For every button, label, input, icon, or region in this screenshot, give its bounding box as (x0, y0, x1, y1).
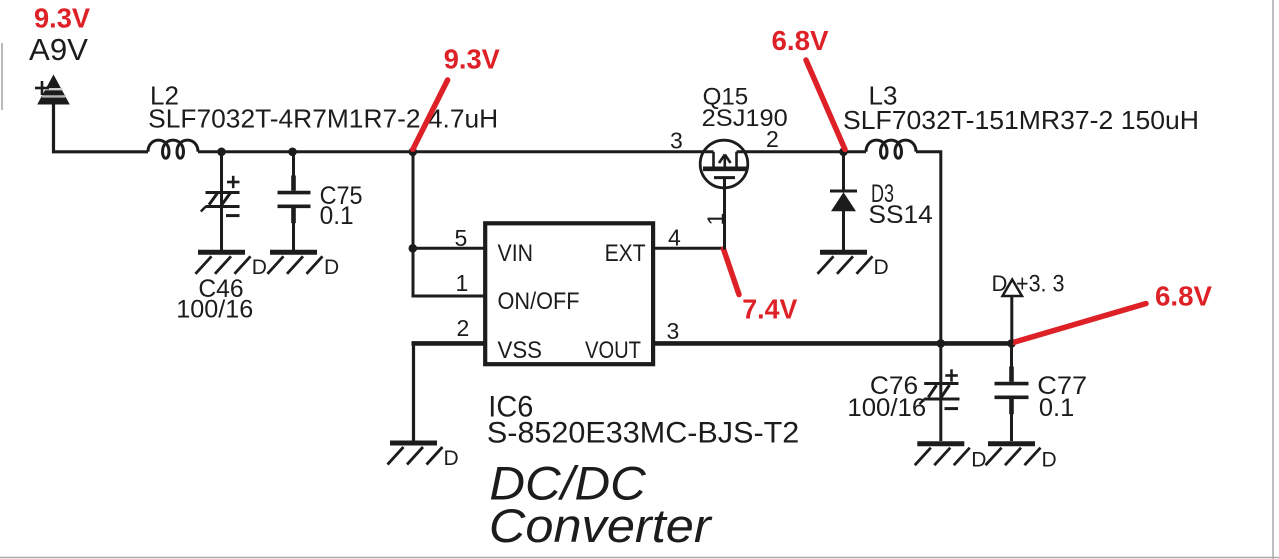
ground (D3) (818, 252, 873, 273)
node junction at C46 (217, 148, 226, 157)
svg-text:SLF7032T-151MR37-2 150uH: SLF7032T-151MR37-2 150uH (843, 105, 1199, 135)
wire VSS pin2 (412, 341, 488, 346)
screen edge artifact right (1272, 0, 1274, 559)
svg-text:SLF7032T-4R7M1R7-2 4.7uH: SLF7032T-4R7M1R7-2 4.7uH (148, 104, 498, 134)
wire rail to D3/L3 (737, 150, 867, 153)
svg-text:7.4V: 7.4V (742, 294, 797, 325)
capacitor C46 (polarized) (201, 152, 240, 250)
svg-text:VOUT: VOUT (585, 337, 641, 364)
inductor L3 (866, 140, 916, 158)
svg-text:EXT: EXT (605, 240, 646, 267)
svg-text:3: 3 (670, 128, 683, 154)
svg-text:6.8V: 6.8V (1155, 281, 1212, 312)
wire VSS down (412, 343, 415, 441)
power symbol +3.3 (1003, 280, 1023, 344)
svg-text:A9V: A9V (29, 32, 88, 67)
node junction C76 (937, 339, 946, 348)
red pointer line 6.8V right (1013, 304, 1146, 343)
svg-text:100/16: 100/16 (176, 296, 253, 324)
inductor L2 (148, 140, 198, 158)
svg-text:SS14: SS14 (868, 201, 932, 229)
svg-text:0.1: 0.1 (1039, 394, 1074, 422)
svg-text:9.3V: 9.3V (444, 44, 500, 75)
capacitor C76 (polarized) (920, 343, 960, 441)
power symbol A9V (35, 75, 70, 105)
svg-text:6.8V: 6.8V (772, 25, 829, 56)
svg-text:0.1: 0.1 (320, 202, 354, 230)
ground (C75) (268, 252, 323, 273)
node junction pin5 (409, 244, 418, 253)
node junction 9.3V (409, 148, 418, 157)
svg-text:4: 4 (668, 225, 681, 251)
svg-text:S-8520E33MC-BJS-T2: S-8520E33MC-BJS-T2 (487, 417, 799, 450)
wire main rail (198, 150, 714, 153)
svg-text:D: D (444, 447, 459, 470)
svg-text:+3. 3: +3. 3 (1016, 270, 1065, 297)
node junction D3 (839, 148, 848, 157)
svg-text:2: 2 (766, 126, 779, 152)
diode D3 (830, 152, 857, 250)
wire VOUT pin3 rail (653, 341, 1012, 346)
svg-text:2: 2 (457, 315, 470, 341)
wire A9V down (54, 105, 149, 152)
svg-text:D: D (992, 271, 1008, 296)
ground (C46) (196, 252, 251, 273)
wire pin1 (412, 295, 488, 298)
svg-text:1: 1 (703, 213, 729, 226)
wire pin5 (412, 247, 488, 250)
red pointer line 6.8V top (806, 60, 845, 150)
svg-text:VSS: VSS (498, 337, 543, 364)
red pointer line 9.3V (413, 80, 448, 150)
capacitor C75 (278, 152, 311, 250)
svg-text:5: 5 (455, 225, 468, 251)
wire gate down (723, 178, 726, 250)
wire VIN feed vertical (412, 152, 415, 298)
svg-text:ON/OFF: ON/OFF (498, 288, 580, 315)
screen edge artifact left (1, 43, 3, 110)
ground (C76) (915, 444, 970, 466)
svg-text:D: D (874, 256, 889, 279)
svg-text:D: D (324, 256, 339, 279)
svg-text:100/16: 100/16 (847, 394, 926, 422)
node junction C77 (1007, 339, 1016, 348)
svg-text:3: 3 (667, 318, 680, 344)
svg-text:9.3V: 9.3V (34, 3, 90, 34)
capacitor C77 (995, 343, 1029, 441)
screen edge artifact bottom (0, 557, 1279, 559)
svg-text:D: D (971, 449, 986, 472)
svg-text:Converter: Converter (489, 499, 713, 552)
svg-text:D: D (1042, 449, 1057, 472)
ground (C77) (986, 444, 1041, 466)
node junction at C75 (288, 148, 297, 157)
wire EXT pin4 (653, 247, 726, 250)
svg-text:D: D (252, 256, 267, 279)
wire L3 to output (916, 152, 941, 344)
IC6 box (485, 223, 653, 364)
svg-text:1: 1 (456, 270, 469, 296)
transistor Q15 (700, 140, 748, 188)
red pointer line 7.4V (724, 249, 740, 295)
ground (VSS) (388, 443, 443, 465)
svg-text:VIN: VIN (498, 240, 534, 267)
